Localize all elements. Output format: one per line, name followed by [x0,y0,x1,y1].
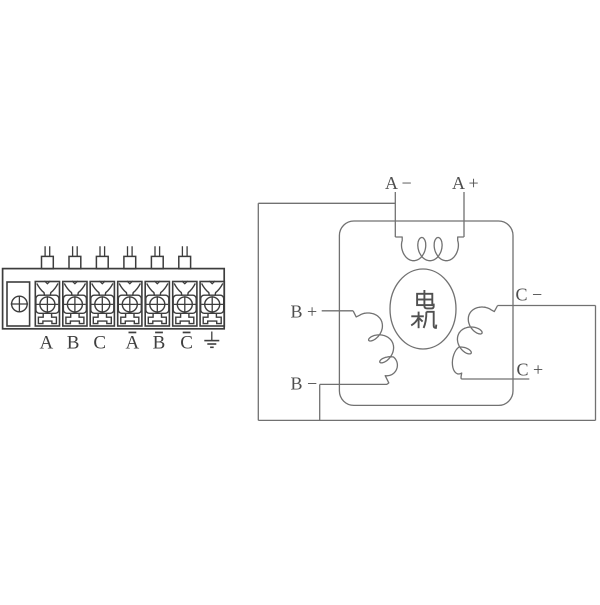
wire C- horizontal [498,305,596,307]
wire A+ vertical [463,192,465,237]
left screw cell [7,282,30,326]
wire B- drop to star wire (junction) [319,384,321,420]
terminal cell [35,281,59,326]
coil A (top winding) [395,237,464,261]
wire plug [69,246,81,268]
star wire bottom segment [258,419,595,421]
wire plug [96,246,108,268]
text dian (electric) [417,290,434,308]
terminal cell [90,281,114,326]
svg-text:C +: C + [517,360,544,380]
terminal cell [173,281,197,326]
terminal cell [118,281,142,326]
wire plug [42,246,54,268]
svg-text:A +: A + [452,173,479,193]
star wire right segment (up to C-) [595,306,597,421]
coil B (left winding) [353,311,397,385]
terminal block outline [3,269,225,329]
motor body circle [390,269,456,349]
ground symbol label [204,332,219,348]
coil C (right winding) [452,306,497,380]
star wire top segment (A- to left) [258,202,395,204]
svg-text:B: B [153,333,166,354]
terminal cell [63,281,87,326]
wire C+ horizontal [461,378,529,380]
svg-text:A: A [126,333,140,354]
wire plug [151,246,163,268]
motor housing [339,221,513,405]
terminal cell [145,281,169,326]
svg-text:C: C [180,333,193,354]
svg-text:B: B [67,333,80,354]
wire A- vertical [394,192,396,237]
svg-text:A: A [40,333,54,354]
terminal cell [200,281,224,326]
wire B- horizontal [320,383,387,385]
svg-text:B −: B − [291,373,318,393]
svg-text:B +: B + [291,302,318,322]
wire B+ horizontal [322,310,353,312]
svg-text:A −: A − [385,173,412,193]
svg-text:C: C [93,333,106,354]
svg-text:C −: C − [516,285,543,305]
wire plug [124,246,136,268]
wire plug [179,246,191,268]
text ji (machine) [411,312,436,329]
star wire left segment [257,203,259,420]
